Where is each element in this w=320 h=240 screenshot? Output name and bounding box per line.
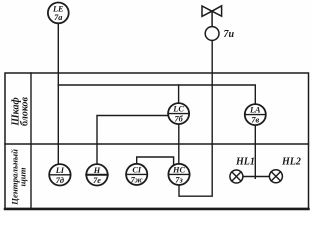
svg-text:LC: LC <box>172 105 184 114</box>
lamp HL1 <box>230 170 243 183</box>
svg-text:7б: 7б <box>174 115 183 124</box>
wire CI over to HC <box>137 157 174 166</box>
svg-text:7з: 7з <box>175 175 183 184</box>
hand controller HC 7з <box>168 164 189 185</box>
row label Шкаф блоков <box>11 96 31 126</box>
wire between lamps HL1 HL2 <box>243 176 270 178</box>
label column divider <box>30 73 32 209</box>
alarm LA 7в <box>245 104 266 125</box>
wire riser to LC <box>178 85 180 103</box>
svg-text:блоков: блоков <box>19 96 30 126</box>
wire H up and to LC left <box>97 116 168 165</box>
svg-text:LA: LA <box>249 106 261 115</box>
svg-text:щит: щит <box>17 167 27 186</box>
svg-text:7в: 7в <box>251 116 259 125</box>
svg-text:LI: LI <box>55 166 65 175</box>
svg-text:HC: HC <box>172 165 185 174</box>
actuator circle 7и <box>205 27 219 41</box>
row label Центральный щит <box>10 149 28 206</box>
control valve <box>202 6 222 27</box>
svg-text:HL1: HL1 <box>235 157 255 168</box>
controller LC 7б <box>168 103 189 124</box>
wire LE to LI <box>57 23 59 164</box>
svg-text:7ж: 7ж <box>131 175 143 184</box>
level sensor LE 7а <box>48 3 69 24</box>
svg-text:H: H <box>93 166 101 175</box>
lamp HL2 <box>269 170 282 183</box>
svg-text:7е: 7е <box>93 176 101 185</box>
svg-text:7д: 7д <box>56 176 64 185</box>
indicator LI 7д <box>49 164 70 185</box>
wire LC down to HC <box>178 124 180 164</box>
hand station H 7е <box>86 164 107 185</box>
table frame <box>5 73 309 209</box>
wire valve down around to HC bottom <box>179 41 212 197</box>
wire node A horizontal LE to LA <box>58 85 255 104</box>
indicator CI 7ж <box>126 164 147 185</box>
svg-text:7и: 7и <box>224 29 235 40</box>
svg-text:HL2: HL2 <box>281 157 301 168</box>
svg-text:CI: CI <box>132 165 142 174</box>
row divider <box>5 143 309 145</box>
wire LA down to lamps junction <box>254 125 256 178</box>
svg-text:7а: 7а <box>54 13 62 22</box>
